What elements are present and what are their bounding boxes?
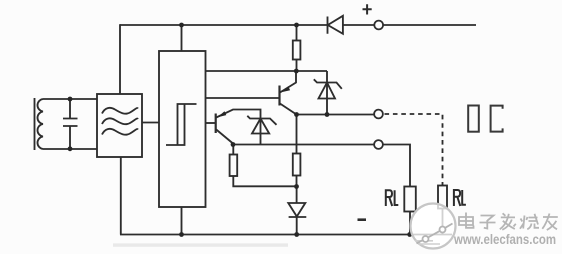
wire RL bottom: [409, 212, 411, 235]
coil L1 core bar: [34, 98, 36, 150]
wire RL' bottom: [442, 209, 444, 235]
schmitt trigger block U2: [159, 51, 206, 207]
resistor R2 stub bottom: [296, 60, 298, 72]
wire schmitt top stub: [181, 25, 183, 51]
wire oscillator to schmitt: [142, 122, 159, 124]
wire Q2 collector rail: [297, 114, 375, 116]
wire R4 bottom to node: [233, 176, 296, 186]
node C1 top: [68, 97, 73, 102]
wire coil bottom: [43, 148, 97, 150]
node bottom rail / RL: [407, 232, 412, 237]
wire top rail diode-to-terminal: [343, 24, 375, 26]
diode D2 anode stub: [296, 187, 298, 204]
node Q2 emitter / R2: [294, 69, 299, 74]
resistor RL' (dashed load): [438, 186, 447, 209]
node top rail / R2: [294, 23, 299, 28]
watermark chinese text: [459, 213, 558, 231]
wire top rail right segment: [383, 24, 476, 26]
oscillator block U1: [97, 94, 142, 157]
wire schmitt to Q2 base: [206, 97, 280, 99]
label minus: [358, 218, 367, 221]
oscillator waves: [102, 108, 138, 114]
wire left rail lower: [120, 157, 122, 235]
transistor Q1 emitter: [216, 110, 260, 119]
coil L1 winding: [37, 99, 43, 149]
label RL right: [454, 190, 466, 206]
svg-text:www.elecfans.com: www.elecfans.com: [453, 231, 556, 247]
label RL left: [386, 190, 399, 206]
wire OUT2 to RL: [383, 145, 410, 187]
watermark logo circle: [411, 204, 456, 249]
resistor RL: [404, 187, 416, 212]
wire schmitt to Q1 base: [206, 122, 216, 124]
wire coil top: [43, 98, 97, 100]
wire Q2 collector down to R3: [296, 115, 298, 154]
label DC letter C: [491, 106, 503, 132]
transistor Q1 collector: [216, 130, 233, 144]
wire schmitt bottom stub: [181, 207, 183, 235]
node Q2 collector: [294, 112, 299, 117]
node C1 bottom: [68, 146, 73, 151]
terminal +: [374, 21, 383, 30]
terminal OUT2: [374, 140, 383, 149]
schmitt hysteresis symbol: [166, 104, 197, 145]
resistor R4: [232, 145, 234, 155]
zener D4 (schmitt out clamp): [314, 71, 342, 115]
node R3 R4 D2: [294, 184, 299, 189]
transistor Q1 base bar: [215, 114, 217, 134]
transistor Q2 base bar: [278, 86, 280, 106]
resistor R2 stub top: [296, 25, 298, 41]
wire Q1 collector rail to OUT2: [233, 144, 374, 146]
transistor Q2 collector: [280, 104, 297, 115]
zener D3 (Q1 emitter): [247, 116, 276, 145]
dashed wire OUT1 to RL': [385, 114, 443, 186]
diode D2 (down): [288, 203, 306, 235]
node Z2 bottom: [325, 112, 330, 117]
wire left rail upper: [119, 24, 121, 94]
resistor R3 stub bottom: [296, 176, 298, 187]
terminal OUT1: [374, 110, 383, 119]
faint scan smudge: [113, 243, 288, 246]
node bottom rail / schmitt: [179, 232, 184, 237]
resistor R3: [293, 154, 301, 176]
transistor Q2 emitter: [280, 71, 296, 93]
node Q1 collector / R4: [231, 142, 236, 147]
wire bottom rail: [120, 234, 452, 236]
resistor R2: [293, 41, 301, 60]
arrowhead Q2 emitter: [281, 86, 290, 92]
label plus: [363, 4, 372, 14]
capacitor C1: [63, 99, 78, 149]
node top rail / schmitt: [179, 23, 184, 28]
node bottom rail / D2: [294, 232, 299, 237]
diode D1 (top, pointing left): [328, 16, 343, 34]
wire top rail left segment: [120, 24, 327, 26]
wire schmitt out top (to Q2 emitter node and Z2): [206, 70, 328, 72]
label DC letter D: [468, 106, 479, 132]
arrowhead Q1 emitter: [218, 111, 227, 117]
